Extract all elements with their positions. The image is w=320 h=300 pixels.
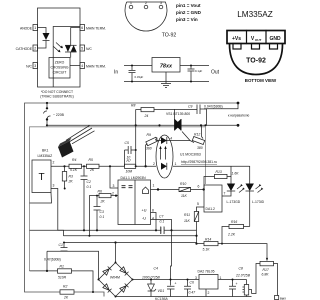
- svg-text:2: 2: [53, 161, 55, 165]
- DC+ wire: [133, 279, 247, 281]
- svg-text:+Vs: +Vs: [232, 36, 241, 42]
- svg-text:C7: C7: [159, 215, 163, 219]
- U1 internal photo-triac: [156, 140, 173, 142]
- svg-text:R13: R13: [216, 170, 222, 174]
- svg-text:2K: 2K: [68, 180, 74, 184]
- body dome: [230, 44, 283, 75]
- svg-text:380: 380: [197, 146, 203, 150]
- svg-text:3: 3: [34, 64, 36, 68]
- svg-text:1: 1: [175, 162, 177, 166]
- 78xx regulator block: [114, 58, 220, 88]
- svg-text:к нагревателю: к нагревателю: [228, 114, 250, 118]
- svg-text:pin1 = Vout: pin1 = Vout: [176, 3, 201, 8]
- svg-text:MAIN TERM.: MAIN TERM.: [86, 65, 106, 69]
- svg-text:ANODE: ANODE: [20, 27, 33, 31]
- sensor shield wire: [30, 193, 52, 204]
- AC wire: [47, 251, 99, 279]
- svg-text:DA1.1 LM2903N: DA1.1 LM2903N: [121, 176, 147, 180]
- svg-text:T: T: [38, 172, 44, 183]
- svg-text:+: +: [236, 282, 238, 286]
- svg-text:1: 1: [153, 184, 155, 188]
- svg-text:1: 1: [220, 276, 222, 280]
- svg-text:R1: R1: [60, 265, 64, 269]
- svg-text:ZERO: ZERO: [55, 61, 65, 65]
- svg-text:DA2 78L05: DA2 78L05: [198, 270, 215, 274]
- svg-text:0.1: 0.1: [87, 185, 92, 189]
- LM335AZ package (top-right, bottom view): [227, 10, 285, 83]
- resistor R3: [64, 166, 66, 171]
- bridge diode top-left: [103, 266, 112, 275]
- output terminal: [275, 296, 279, 300]
- svg-text:6: 6: [81, 26, 83, 30]
- svg-text:3: 3: [160, 1, 162, 5]
- sensor connection row: T-box pin 2 wire: [51, 165, 69, 167]
- junction dots: [131, 65, 133, 67]
- svg-text:0.47: 0.47: [189, 291, 196, 295]
- svg-text:2: 2: [145, 1, 147, 5]
- bottom wire: [124, 81, 209, 83]
- svg-text:2: 2: [153, 162, 155, 166]
- supply bus 2: [63, 235, 196, 237]
- svg-text:N/C: N/C: [26, 65, 32, 69]
- svg-text:In: In: [114, 70, 118, 76]
- output symbol: [143, 187, 149, 194]
- svg-text:(TRIAC SUBSTRATE): (TRIAC SUBSTRATE): [40, 95, 73, 99]
- svg-text:1.6K: 1.6K: [232, 172, 240, 176]
- svg-text:4: 4: [81, 64, 83, 68]
- pin 4 box: [80, 63, 85, 69]
- package top bar: [227, 31, 285, 44]
- svg-text:C8: C8: [239, 267, 243, 271]
- svg-text:11K: 11K: [184, 219, 191, 223]
- bridge diode bottom-right: [120, 283, 129, 292]
- internal photo-triac: [71, 28, 80, 58]
- mains connector / fuse ~220V: [46, 102, 48, 104]
- opto-triac package U1 pinout (top-left): [16, 8, 106, 99]
- svg-text:3: 3: [113, 184, 115, 188]
- svg-text:LM335AZ: LM335AZ: [237, 10, 273, 19]
- U1 internal light arrows: [161, 148, 166, 160]
- svg-text:DA1.2: DA1.2: [206, 207, 216, 211]
- svg-text:C3: C3: [100, 210, 104, 214]
- internal LED D: [38, 28, 47, 49]
- svg-text:MAIN TERM.: MAIN TERM.: [86, 27, 106, 31]
- svg-text:10M: 10M: [126, 170, 133, 174]
- output capacitor: [188, 66, 195, 82]
- pin 5 box: [80, 45, 85, 51]
- svg-text:7: 7: [224, 192, 226, 196]
- green LED L-173GD: [230, 166, 232, 184]
- ground: [161, 72, 171, 88]
- heater terminal upper: [237, 102, 240, 105]
- svg-text:R2: R2: [63, 285, 67, 289]
- light arrows: [54, 43, 63, 53]
- svg-text:360: 360: [146, 147, 152, 151]
- svg-text:Out: Out: [211, 70, 220, 76]
- svg-text:*DO NOT CONNECT: *DO NOT CONNECT: [41, 90, 73, 94]
- pin 3 box: [33, 63, 38, 69]
- bus 3: [64, 242, 197, 244]
- input capacitor: [129, 66, 136, 82]
- heater terminal lower: [237, 124, 240, 127]
- svg-text:R10: R10: [180, 182, 186, 186]
- svg-text:+: +: [175, 282, 177, 286]
- svg-text:8: 8: [152, 209, 154, 213]
- svg-text:2: 2: [34, 47, 36, 51]
- svg-text:GND: GND: [269, 36, 281, 42]
- svg-text:6.8K: 6.8K: [262, 273, 270, 277]
- svg-text:R14: R14: [205, 238, 211, 242]
- svg-text:0.1: 0.1: [100, 215, 105, 219]
- svg-text:0.47(630B): 0.47(630B): [44, 258, 61, 262]
- svg-text:R8: R8: [131, 104, 135, 108]
- resistor R2: [60, 290, 74, 294]
- pin 1: [129, 5, 133, 9]
- svg-text:http://298792498.381.ru: http://298792498.381.ru: [181, 160, 217, 164]
- svg-text:R5: R5: [89, 158, 93, 162]
- bridge rectifier W04M: [99, 263, 133, 297]
- svg-text:0.047(630B): 0.047(630B): [204, 105, 223, 109]
- svg-text:6: 6: [198, 185, 200, 189]
- svg-text:CIRCUIT: CIRCUIT: [53, 71, 67, 75]
- svg-text:pin2 = GND: pin2 = GND: [176, 10, 202, 15]
- zero crossing circuit box: [49, 58, 70, 79]
- svg-text:вых: вых: [280, 297, 286, 300]
- svg-text:5: 5: [197, 202, 199, 206]
- svg-text:C1: C1: [59, 243, 63, 247]
- pin 6 box: [80, 25, 85, 31]
- svg-text:R4: R4: [72, 158, 76, 162]
- zener diode VD1: [150, 280, 152, 297]
- svg-text:5.1K: 5.1K: [70, 168, 78, 172]
- svg-text:C2: C2: [87, 180, 91, 184]
- svg-text:VS1 BT139-800: VS1 BT139-800: [166, 112, 190, 116]
- svg-text:3: 3: [195, 276, 197, 280]
- svg-text:VD1: VD1: [158, 289, 165, 293]
- svg-text:22.0*25B: 22.0*25B: [235, 274, 251, 278]
- svg-text:2.2K: 2.2K: [227, 233, 236, 237]
- svg-text:R11: R11: [184, 213, 190, 217]
- comparator DA1.2: [204, 185, 222, 212]
- svg-text:510R: 510R: [58, 276, 67, 280]
- pin 5 wire from R11: [197, 207, 205, 212]
- svg-text:78xx: 78xx: [160, 64, 173, 70]
- wire in: [124, 65, 152, 67]
- MT2 net wire y=125.3: [47, 124, 238, 126]
- svg-text:0.33µF: 0.33µF: [135, 75, 144, 79]
- pin notches: [233, 44, 241, 50]
- mains loop wire (top and left and bottom): [25, 103, 239, 297]
- svg-text:pin3 = Vin: pin3 = Vin: [176, 17, 198, 22]
- package circle: [125, 2, 167, 31]
- svg-text:L-173ID: L-173ID: [252, 200, 265, 204]
- svg-text:24: 24: [144, 114, 149, 118]
- pin 2 box: [33, 45, 38, 51]
- svg-text:5.1K: 5.1K: [203, 248, 211, 252]
- ground rail: [116, 296, 252, 298]
- svg-text:2: 2: [112, 192, 114, 196]
- svg-text:R6: R6: [98, 190, 102, 194]
- svg-text:U1 MOC3063: U1 MOC3063: [180, 153, 201, 157]
- svg-text:R17: R17: [263, 268, 269, 272]
- svg-text:R7: R7: [127, 159, 131, 163]
- inner unit box (gray): [30, 127, 206, 271]
- svg-text:R12: R12: [194, 133, 200, 137]
- sensor pin3 wire: [51, 189, 63, 236]
- pin 3: [159, 5, 163, 9]
- U1 internal LED: [161, 163, 167, 170]
- trimmer R11: [194, 212, 198, 222]
- svg-text:0.1: 0.1: [160, 220, 165, 224]
- svg-text:L-173GD: L-173GD: [227, 200, 241, 204]
- svg-text:2: 2: [208, 291, 210, 295]
- svg-text:R3: R3: [69, 175, 73, 179]
- svg-text:C9: C9: [188, 105, 192, 109]
- trimmer R17: [260, 261, 274, 265]
- package body: [58, 141, 74, 158]
- svg-text:C5: C5: [125, 141, 129, 145]
- inner box bottom-left corner to R1 wire: [30, 270, 58, 272]
- svg-text:0.1µF: 0.1µF: [195, 69, 202, 73]
- svg-text:5: 5: [81, 47, 83, 51]
- capacitor C3: [94, 196, 101, 231]
- supply bus 1: [30, 229, 197, 231]
- svg-text:3: 3: [53, 184, 55, 188]
- pin 2: [144, 5, 148, 9]
- svg-text:4: 4: [170, 136, 172, 140]
- pin 1 box: [33, 25, 38, 31]
- svg-text:R9: R9: [147, 133, 151, 137]
- svg-text:4: 4: [152, 217, 154, 221]
- svg-text:C6: C6: [190, 281, 194, 285]
- red LED L-173ID: [249, 166, 251, 184]
- svg-text:1000.0*25B: 1000.0*25B: [142, 276, 160, 280]
- svg-text:-U: -U: [142, 217, 146, 221]
- temperature sensor box T: [32, 160, 51, 193]
- svg-text:BOTTOM VIEW: BOTTOM VIEW: [245, 78, 277, 83]
- svg-text:BK1: BK1: [42, 149, 49, 153]
- bridge top corner wire: [115, 243, 117, 263]
- wire out: [180, 65, 209, 67]
- svg-text:N/C: N/C: [86, 47, 92, 51]
- svg-text:2K: 2K: [100, 200, 106, 204]
- bridge diode top-right: [120, 267, 129, 276]
- svg-text:TO-92: TO-92: [246, 58, 266, 65]
- svg-text:+U: +U: [142, 209, 147, 213]
- svg-text:OUT: OUT: [255, 38, 262, 42]
- transistor VT1: [246, 280, 248, 285]
- regulator U 78xx: [152, 58, 180, 73]
- svg-text:CROSSING: CROSSING: [50, 66, 68, 70]
- wire ZC box to pin 4: [70, 65, 80, 67]
- svg-text:1: 1: [130, 1, 132, 5]
- internal partition: [53, 27, 80, 88]
- svg-text:2K: 2K: [63, 296, 69, 300]
- capacitor C2: [81, 166, 88, 230]
- svg-text:~ 220B: ~ 220B: [53, 113, 65, 117]
- svg-text:TO-92: TO-92: [162, 33, 177, 39]
- svg-text:CATHODE: CATHODE: [16, 47, 33, 51]
- package leads: [66, 126, 95, 144]
- bridge diode bottom-left: [103, 284, 112, 293]
- IC body: [38, 8, 81, 87]
- svg-text:1: 1: [34, 26, 36, 30]
- svg-text:11K: 11K: [181, 194, 188, 198]
- svg-text:LM335AZ: LM335AZ: [38, 154, 53, 158]
- svg-text:C4: C4: [154, 267, 158, 271]
- capacitor C6: [184, 280, 191, 297]
- snubber tap from triac top: [174, 109, 176, 119]
- svg-text:R16: R16: [231, 220, 237, 224]
- svg-text:W04M: W04M: [110, 276, 120, 280]
- svg-text:2K: 2K: [89, 168, 95, 172]
- arrow into R17 wiper: [266, 258, 268, 261]
- TO-92 front view (top-middle): [125, 1, 202, 39]
